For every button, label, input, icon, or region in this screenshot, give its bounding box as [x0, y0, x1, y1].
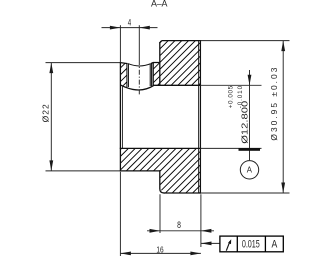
- dimension diameter 12.800 with tolerances: [200, 70, 261, 160]
- hub bottom line: [120, 170, 159, 172]
- hub top left sliver edge: [120, 62, 127, 65]
- dimension diameter 30.95: [200, 41, 289, 193]
- flange lower left face with fillet: [160, 171, 164, 193]
- hatch flange upper: [0, 25, 329, 210]
- hatch left sliver: [0, 25, 329, 210]
- undercut sliver left edge: [152, 63, 154, 86]
- svg-text:4: 4: [128, 17, 131, 27]
- datum circle A: [240, 161, 258, 179]
- hub OD line right of hole: [152, 62, 160, 65]
- right face: [199, 41, 201, 193]
- svg-text:+0.005: +0.005: [228, 85, 235, 108]
- svg-text:0.015: 0.015: [242, 238, 260, 251]
- right face chamfer line: [198, 41, 200, 193]
- left face: [119, 63, 121, 171]
- feature control frame leader: [201, 242, 220, 246]
- dimension 16: [120, 172, 200, 256]
- bore bottom line: [120, 147, 200, 149]
- flange left face upper: [159, 43, 161, 86]
- flange bottom line: [164, 192, 200, 194]
- hole centerline: [138, 25, 140, 96]
- hole-OD intersection arc: [128, 64, 151, 66]
- hole-bore intersection arc: [120, 85, 154, 90]
- section label A-A: [151, 0, 168, 8]
- svg-text:8: 8: [177, 220, 181, 230]
- svg-text:Ø30.95 ±0.03: Ø30.95 ±0.03: [269, 67, 279, 140]
- svg-text:-0.010: -0.010: [237, 85, 244, 108]
- hatch hub lower band: [0, 25, 329, 210]
- radial hole walls: [127, 63, 152, 87]
- dimension 4: [102, 17, 158, 62]
- part outline upper: [120, 41, 200, 193]
- tolerance value 0.015: [242, 238, 260, 251]
- feature control frame box: [220, 236, 283, 252]
- runout symbol: [226, 239, 231, 250]
- bore top line: [154, 84, 200, 86]
- svg-text:16: 16: [156, 245, 163, 255]
- flange top edge with chamfer: [160, 41, 201, 43]
- svg-text:A: A: [272, 239, 278, 251]
- dimension diameter 22: [41, 63, 121, 171]
- datum feature bar: [239, 148, 261, 151]
- hatch flange lower: [0, 25, 329, 210]
- svg-text:A: A: [247, 165, 253, 174]
- svg-text:A–A: A–A: [151, 0, 168, 8]
- svg-text:Ø22: Ø22: [41, 104, 51, 122]
- dimension 8: [147, 194, 214, 247]
- datum reference A: [272, 239, 278, 251]
- bore left chamfer vertical: [121, 87, 123, 148]
